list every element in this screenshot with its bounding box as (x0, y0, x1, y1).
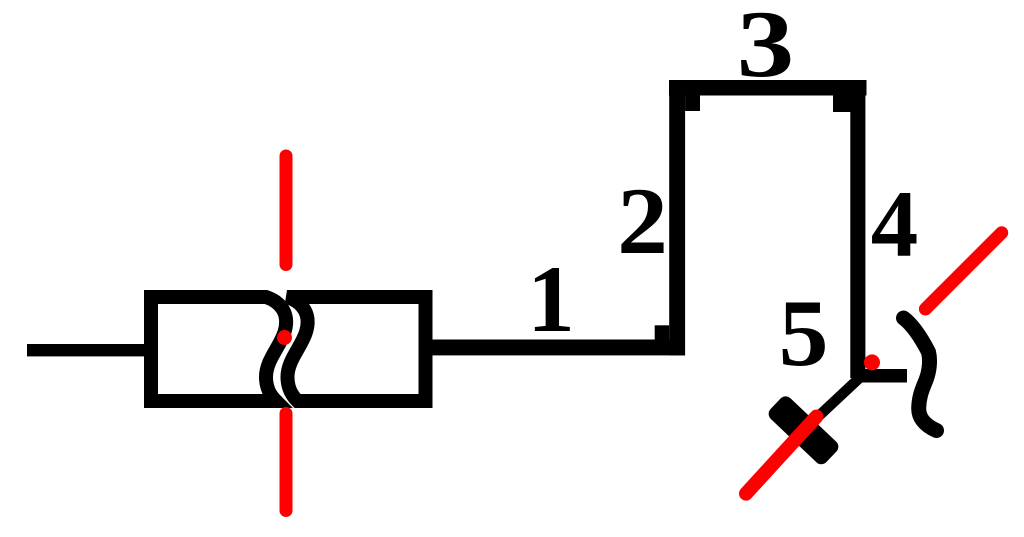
svg-text:4: 4 (871, 171, 919, 277)
wire left lead (27, 344, 157, 356)
svg-text:1: 1 (527, 246, 575, 352)
red dot at node 5 (864, 354, 880, 370)
terminal X mark (766, 393, 841, 467)
svg-text:5: 5 (779, 281, 829, 386)
red centerline top segment (280, 156, 293, 265)
wire segment 1 (432, 340, 685, 356)
wire segment 5 horizontal stub (853, 369, 907, 383)
wire segment 3 bar (669, 80, 867, 96)
component left box half (with break curve) (151, 297, 286, 401)
wire segment 3 right leg (833, 80, 851, 112)
red centerline bottom segment (280, 414, 293, 511)
red dot on break (277, 330, 292, 345)
svg-text:3: 3 (737, 0, 794, 97)
wire segment 2 (669, 80, 685, 355)
wire segment 4 (850, 80, 865, 378)
wire segment 3 left leg (685, 80, 700, 111)
red slash through X (746, 417, 817, 494)
red slash top right (925, 233, 1001, 309)
wire segment 1 end tab (655, 325, 670, 340)
component right box half (with break curve) (287, 297, 426, 401)
connector hook curve (904, 318, 937, 431)
svg-text:2: 2 (617, 169, 668, 274)
wire segment 5 diagonal (799, 377, 861, 435)
